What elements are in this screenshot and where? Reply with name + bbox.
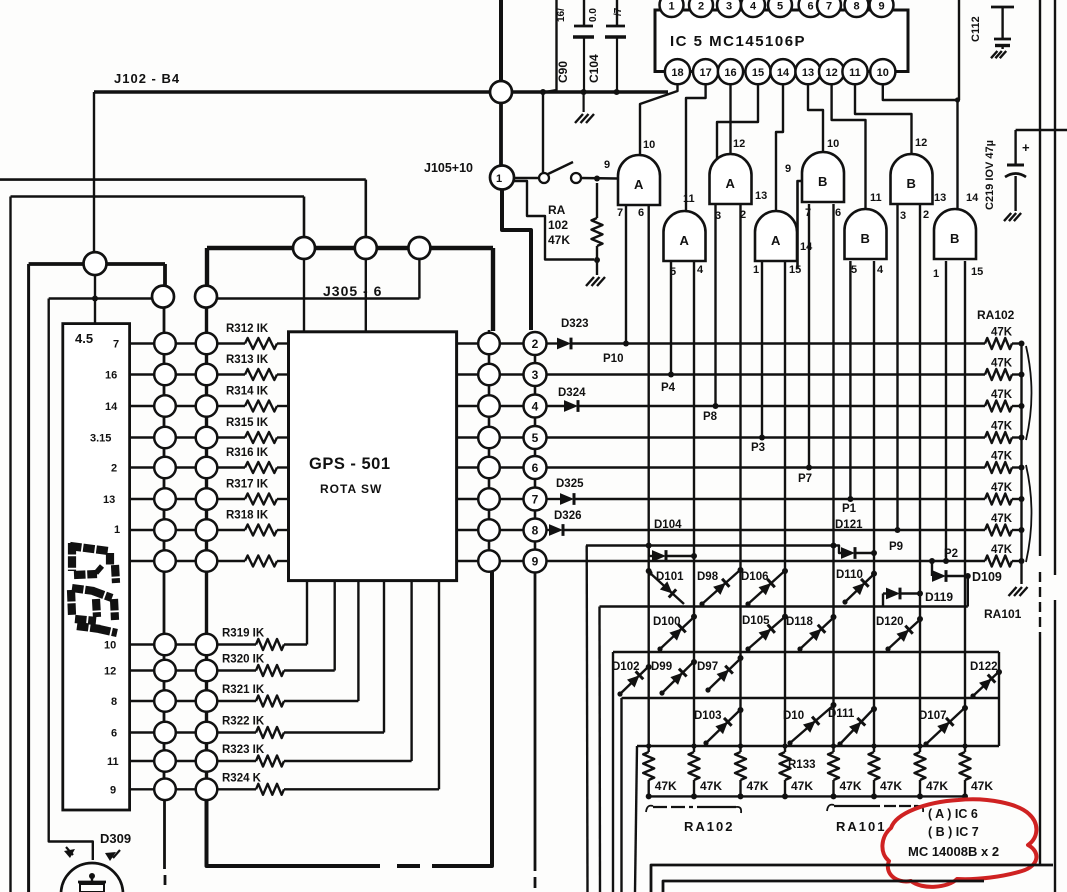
wires GPS outputs to circles [457,344,478,562]
diode D107 [919,705,968,747]
wire circle1 to switch [514,177,539,179]
svg-text:P10: P10 [603,353,623,365]
wire bottom rail [649,795,965,797]
label RA102 bottom [684,819,734,834]
node top circle column1 [152,286,174,308]
label D121 text [835,519,863,531]
svg-text:R322 IK: R322 IK [222,716,265,728]
svg-text:47K: 47K [991,513,1013,525]
capacitor C112 [991,7,1014,49]
wire IC5 pin12 to gate B3 out [832,84,866,210]
svg-text:10: 10 [827,138,839,150]
svg-text:47K: 47K [700,779,722,793]
svg-text:R323 IK: R323 IK [222,744,265,756]
svg-text:IC 5 MC145106P: IC 5 MC145106P [670,33,806,50]
label P2 [944,548,958,560]
gate B1 labels [785,138,841,219]
capacitor C90 [573,0,594,112]
svg-text:13: 13 [802,67,814,79]
svg-text:R315 IK: R315 IK [226,417,269,429]
wire IC5 pin11 to gate B2 out [855,84,912,155]
svg-text:9: 9 [110,784,116,796]
diode D110 [836,569,877,605]
svg-text:16/: 16/ [556,8,567,22]
wire bottom box outer [651,865,1053,892]
resistors R319-R324 1K with GPS wires [217,582,439,795]
svg-text:4: 4 [532,400,539,414]
svg-text:R321 IK: R321 IK [222,684,265,696]
wire bus drop to GPS pin a [303,259,305,331]
label P9 [889,541,903,553]
label P3 [751,442,765,454]
wire left vertical x48 to D309 [49,299,93,861]
label D325 [556,478,584,490]
gate B4 (IC7) [934,209,976,259]
svg-text:17: 17 [699,67,711,79]
label 4.5 [75,331,93,346]
svg-text:12: 12 [733,138,745,150]
svg-text:D106: D106 [741,571,769,583]
svg-text:7: 7 [617,207,623,219]
svg-text:P1: P1 [842,503,857,515]
svg-text:3: 3 [900,210,906,222]
label R133 [788,759,816,771]
svg-text:R133: R133 [788,759,816,771]
svg-text:1: 1 [753,264,759,276]
svg-text:D323: D323 [561,318,589,330]
wire gate B1 side input hook [798,181,804,268]
wire matrix box5 (resistor row) [635,746,999,892]
wire right vertical x1040 [1039,0,1041,865]
svg-text:RA102: RA102 [977,308,1015,322]
resistor network RA102 47K ladder [985,338,1025,584]
svg-text:D100: D100 [653,616,681,628]
svg-text:47K: 47K [971,779,993,793]
svg-text:A: A [771,233,781,248]
wire long line y196 [11,197,305,238]
gate A1 labels [604,139,655,219]
svg-text:9: 9 [532,555,539,569]
svg-text:2: 2 [532,337,539,351]
svg-text:1: 1 [114,524,120,536]
svg-text:J102 - B4: J102 - B4 [114,71,180,86]
wire IC5 pin10 to gate B4 out [883,84,960,210]
IC5 top pins 1-9 [660,0,894,17]
node junction circle on J102 line [84,252,107,275]
connector circles column3 [478,330,500,572]
wire long line y179 [0,180,366,238]
svg-text:J305 - 6: J305 - 6 [323,283,382,299]
gate B2 (IC7) [891,154,933,204]
svg-text:18: 18 [671,67,683,79]
svg-text:D104: D104 [654,519,682,531]
svg-text:B: B [907,176,916,191]
svg-text:D110: D110 [836,569,863,581]
label C104 (rotated) [587,54,601,83]
gate A2 (IC6) [710,154,752,204]
svg-text:D109: D109 [972,570,1002,584]
label GPS-501 [309,455,391,473]
wire connector column1 vertical [164,297,165,885]
label IC 5 MC145106P [670,33,806,50]
wire J305-6 heavy bus [207,248,493,331]
gate A1 (IC6) [618,155,660,205]
wire IC5 pin17 to gate A3 out [686,84,706,212]
display DS box [63,324,130,810]
svg-text:9: 9 [878,1,884,13]
svg-text:7: 7 [113,339,119,351]
svg-text:11: 11 [683,193,695,205]
svg-text:P7: P7 [798,473,812,485]
svg-text:( B ) IC 7: ( B ) IC 7 [928,825,979,839]
svg-text:9: 9 [785,163,791,175]
label P1 [842,503,857,515]
svg-text:12: 12 [104,666,116,678]
label D309 [100,831,131,846]
svg-text:47K: 47K [991,389,1013,401]
svg-text:14: 14 [800,241,813,253]
svg-text:16: 16 [105,370,117,382]
svg-text:47K: 47K [926,779,948,793]
svg-text:A: A [680,233,690,248]
wire heavy bottom bus from column2 [207,572,493,866]
wire switch feed drop [542,92,544,173]
svg-text:2: 2 [698,1,704,13]
label D109 [972,570,1002,584]
label RA101 right [984,607,1022,621]
svg-text:14: 14 [777,67,790,79]
node top circle column2 [195,286,217,308]
svg-text:47K: 47K [655,779,677,793]
svg-text:B: B [950,231,959,246]
svg-text:9: 9 [604,159,610,171]
svg-text:4: 4 [877,264,884,276]
wire display backplane drop [92,275,98,323]
svg-text:D119: D119 [925,590,953,604]
gate A2 labels [715,138,746,222]
svg-text:R313 IK: R313 IK [226,354,269,366]
node dot at RA102 top [594,176,600,182]
gate A4 labels [753,190,813,276]
wires program rows 2-9 with diodes D323 D324 D325 D326 [547,338,986,561]
label RA102 ladder [977,308,1015,322]
gate B1 (IC7) [802,152,844,202]
wire RA102 ground stub [596,260,598,275]
ground below C112 [991,51,1006,58]
svg-text:/7: /7 [613,7,624,16]
diode D98 [697,567,744,607]
svg-text:10: 10 [643,139,655,151]
svg-text:1: 1 [668,1,674,13]
node bus circle c [408,237,430,259]
svg-text:8: 8 [853,1,859,13]
svg-text:3: 3 [726,1,732,13]
svg-text:13: 13 [103,494,115,506]
wire matrix box2 [600,607,968,892]
svg-text:C104: C104 [587,54,601,83]
ground below RA102 [586,277,605,286]
label P7 [798,473,812,485]
wires display pins to connector circles [130,344,155,790]
svg-text:2: 2 [111,463,117,475]
diode D118 [786,614,837,652]
svg-text:2: 2 [923,209,929,221]
svg-text:P3: P3 [751,442,765,454]
wire bus drop to GPS pin b [365,259,367,331]
svg-text:D324: D324 [558,387,586,399]
label RA [548,203,566,217]
svg-text:R317 IK: R317 IK [226,479,269,491]
wire matrix box3 [613,652,999,892]
svg-text:0.0: 0.0 [588,8,599,22]
wire connector column2 vertical [205,297,208,800]
svg-text:D118: D118 [786,616,813,628]
IC GPS-501 ROTA SW box [289,332,457,581]
node bus circle b [355,237,377,259]
svg-text:7: 7 [826,1,832,13]
svg-text:D111: D111 [828,708,855,720]
label J105+10 [424,161,473,175]
gate B3 labels [851,192,884,276]
red hand-drawn circle annotation [882,799,1036,887]
wire switch to gate A1 input 9 [581,177,617,180]
svg-text:5: 5 [851,264,857,276]
diode D100 [653,614,697,652]
label 102 [548,218,568,232]
svg-text:D120: D120 [876,616,904,628]
diode D10 [783,702,837,746]
svg-text:11: 11 [870,192,882,204]
svg-text:47K: 47K [991,327,1013,339]
node dot C90 junction [581,89,587,95]
svg-text:RA101: RA101 [984,607,1022,621]
svg-text:16: 16 [724,67,736,79]
resistors 47K bottom row network [643,743,993,799]
ground ladder [1009,587,1028,596]
svg-text:B: B [818,174,827,189]
svg-text:3: 3 [532,368,539,382]
diode D105 [742,614,788,652]
svg-text:8: 8 [111,696,117,708]
label (A) IC6 [928,807,978,821]
svg-text:J105+10: J105+10 [424,161,473,175]
svg-text:6: 6 [111,728,117,740]
display pin number labels [90,339,120,797]
wire +B heavy vertical from top [499,0,503,92]
wire column4 down to bottom [534,572,537,888]
svg-text:R324 K: R324 K [222,772,262,784]
svg-text:10: 10 [877,67,889,79]
svg-text:12: 12 [825,67,837,79]
transistor Q (D309 lamp) circle [61,863,123,892]
wire IC5 pin13 to gate B1 out [808,84,823,153]
label D104 [654,519,682,531]
svg-text:15: 15 [971,266,983,278]
svg-text:11: 11 [849,67,861,79]
capacitor C104 [605,0,626,90]
wire heavy +10 feed down to circle 2 [502,190,531,331]
label J102-B4 [114,71,180,86]
gate A3 labels [670,193,704,278]
diode D109 [929,558,971,582]
svg-text:P8: P8 [703,411,718,423]
svg-text:D107: D107 [919,710,947,722]
diode D120 [876,616,923,652]
wire IC5 pin18 to gate A1 out [640,84,678,156]
connector circles columns 1-2 [154,333,217,800]
wire gate B4 output up to top edge [958,0,960,100]
svg-text:47K: 47K [747,779,769,793]
svg-text:15: 15 [752,67,764,79]
svg-text:D97: D97 [697,661,718,673]
display 7-segment digits 69 [70,543,117,633]
gate B3 (IC7) [845,209,887,259]
svg-text:47K: 47K [991,544,1013,556]
svg-text:8: 8 [532,524,539,538]
svg-text:6: 6 [638,207,644,219]
capacitor C219 10V 47u [1005,130,1067,211]
svg-text:4: 4 [697,264,704,276]
node dot on y92 at switch feed [540,89,546,95]
label ROTA SW [320,482,382,496]
svg-text:A: A [634,177,644,192]
node junction big circle on +B line [490,81,512,103]
switch S contact a [539,173,549,183]
svg-text:47K: 47K [791,779,813,793]
svg-text:RA: RA [548,203,566,217]
wire bottom box inner [663,881,984,892]
diode D97 [697,655,744,693]
labels 47K ladder [991,327,1013,557]
wire IC5 pin16 to gate A2 out [729,84,731,155]
label C112 (rotated) [970,16,982,42]
wire IC5 pin15 jog [717,84,758,170]
wire left vertical x10 [9,197,11,892]
svg-text:R319 IK: R319 IK [222,628,265,640]
svg-text:R314 IK: R314 IK [226,386,269,398]
label C90 (rotated) [556,61,570,83]
wire matrix box4 [622,698,1000,892]
svg-text:ROTA SW: ROTA SW [320,482,382,496]
svg-text:5: 5 [532,431,539,445]
arrow D309 b [105,850,120,861]
svg-text:RA101: RA101 [836,819,886,834]
svg-text:47K: 47K [548,233,570,247]
gate B2 labels [900,137,929,222]
label P4 [661,382,676,394]
diode D119 [883,588,923,607]
svg-text:( A ) IC 6: ( A ) IC 6 [928,807,978,821]
label D119 [925,590,953,604]
svg-text:D101: D101 [656,571,684,583]
svg-text:47K: 47K [991,358,1013,370]
label (B) IC7 [928,825,979,839]
wire matrix right vertical [998,652,1000,746]
svg-text:B: B [861,231,870,246]
svg-text:D99: D99 [651,661,672,673]
svg-text:6: 6 [532,461,539,475]
svg-text:6: 6 [808,1,814,13]
label 77 value (rotated) [613,7,624,16]
svg-text:R316 IK: R316 IK [226,447,269,459]
label C219 10V 47u (rotated) [984,140,996,210]
svg-text:C219 IOV 47µ: C219 IOV 47µ [984,140,996,210]
diode D111 [828,706,877,747]
wires P-tap columns from gate inputs [623,204,949,564]
svg-text:MC 14008B x 2: MC 14008B x 2 [908,844,999,859]
resistors R312-R318 1K [217,323,288,567]
diode D99 [651,659,697,696]
node dot C104 junction [614,89,620,95]
svg-text:12: 12 [915,137,927,149]
diode D106 [741,568,788,607]
svg-text:P9: P9 [889,541,903,553]
wire +B heavy continues to J105 circle [499,103,503,166]
wire thin y298 line [49,260,420,299]
label J305-6 [323,283,382,299]
bracket RA102 bottom [646,806,741,813]
svg-text:5: 5 [777,1,783,13]
IC5 bottom pins 18-10 [665,59,896,84]
wire IC5 pin14 to gate A4 out [776,84,783,212]
label P10 [603,353,623,365]
wire RA102 staircase from +10 [514,181,594,260]
svg-text:15: 15 [789,264,801,276]
label D326 [554,510,582,522]
diode D104 [646,543,697,562]
wire J102-B4 net [94,92,500,263]
resistor RA102 47K vertical [592,183,603,260]
svg-text:1: 1 [496,173,502,185]
wires matrix columns from gate inputs [649,204,965,746]
diode D122 [970,661,1002,699]
svg-text:102: 102 [548,218,568,232]
wire right vertical x1055 [1054,0,1056,892]
svg-text:D325: D325 [556,478,584,490]
label RA101 bottom [836,819,886,834]
wire matrix box1 top/left (D104 row) [586,546,835,892]
svg-text:11: 11 [107,756,119,768]
svg-text:D102: D102 [612,661,640,673]
node bus circle a [293,237,315,259]
wire left heavy vertical x28 [27,264,30,892]
switch lever [548,162,573,174]
bracket RA101 bottom [827,805,923,812]
connector circles column4 numbered 2-9 [524,332,547,573]
svg-text:D309: D309 [100,831,131,846]
svg-text:D98: D98 [697,571,719,583]
svg-text:R312 IK: R312 IK [226,323,269,335]
svg-text:D105: D105 [742,615,770,627]
diode D102 [612,661,652,697]
svg-text:C112: C112 [970,16,982,42]
svg-text:13: 13 [934,192,946,204]
bracket ladder group2 [1026,465,1032,562]
gate B4 labels [933,192,983,280]
diode D121 [831,543,878,559]
svg-text:1: 1 [933,268,939,280]
gate A4 (IC6) [755,211,797,261]
svg-text:P2: P2 [944,548,958,560]
svg-text:4.5: 4.5 [75,331,93,346]
wire y92 bus to capacitors and IC [512,90,668,93]
svg-text:D122: D122 [970,661,998,673]
svg-text:+: + [1022,140,1030,155]
svg-text:47K: 47K [880,779,902,793]
svg-text:14: 14 [966,192,979,204]
svg-text:47K: 47K [991,451,1013,463]
label 16 value (rotated) [556,8,567,22]
